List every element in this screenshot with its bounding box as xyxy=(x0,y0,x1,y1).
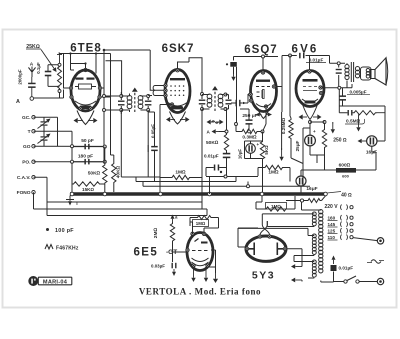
capacitor polarized xyxy=(206,165,227,195)
svg-text:0.01μF: 0.01μF xyxy=(204,154,219,159)
6SK7 top pin xyxy=(176,69,179,72)
svg-text:1MΩ: 1MΩ xyxy=(268,170,279,176)
6E5 pin TL xyxy=(191,232,194,235)
6SK7 grid bar xyxy=(170,78,185,80)
tap 125 xyxy=(328,228,354,234)
svg-text:0.01μF: 0.01μF xyxy=(309,58,324,63)
title text xyxy=(139,287,261,297)
wire Bplus 2 xyxy=(136,176,236,182)
arrows to 5Y3 xyxy=(291,260,302,282)
6TE8 pin right upper xyxy=(98,86,101,89)
electrolytic 16uF top xyxy=(366,136,385,156)
bus junction 2 xyxy=(103,192,107,196)
6SK7 grid dots xyxy=(170,85,184,96)
ground symbol T xyxy=(66,196,79,208)
6TE8 top pin xyxy=(84,68,87,71)
resistor 50K xyxy=(88,147,107,192)
electrolytic 16uF bus xyxy=(296,170,325,194)
resistor 40ohm xyxy=(286,192,352,211)
capacitor 50pF xyxy=(72,138,105,149)
6V6 cathode xyxy=(302,99,318,104)
resistor 2M xyxy=(153,222,187,252)
wire tone box xyxy=(339,89,385,141)
tube 6V6 envelope xyxy=(296,71,324,107)
terminal GO xyxy=(23,144,35,150)
6SQ7 heater vee xyxy=(258,110,269,119)
tube label 6SK7 xyxy=(162,43,195,55)
5Y3 left wire xyxy=(238,228,258,247)
svg-text:0.5MΩ: 0.5MΩ xyxy=(346,119,361,125)
pot 0.5M wiper xyxy=(356,115,360,132)
legend 100pF xyxy=(46,228,74,234)
tap 145 xyxy=(328,222,354,228)
terminal mains 1 xyxy=(377,238,383,244)
5Y3 pin top 1 xyxy=(258,235,261,238)
capacitor grid black xyxy=(226,62,237,124)
svg-text:180 pF: 180 pF xyxy=(78,154,93,160)
6E5 pin BL xyxy=(192,264,195,267)
capacitor tone xyxy=(339,106,352,116)
bus junction 4 xyxy=(208,192,212,196)
logo mark xyxy=(28,276,72,286)
wire 100pF to grid xyxy=(245,94,254,103)
terminal T xyxy=(28,129,36,135)
svg-text:A: A xyxy=(30,62,34,68)
svg-text:0.03μF: 0.03μF xyxy=(151,264,165,269)
capacitor 180pF xyxy=(72,154,105,165)
6V6 dashes xyxy=(303,87,317,91)
resistor 50K 6SQ7 xyxy=(224,133,228,152)
6SK7 pin bottom xyxy=(170,103,173,106)
wire cathode bus xyxy=(303,128,325,186)
svg-text:5Y3: 5Y3 xyxy=(252,270,275,282)
label 25K ohm xyxy=(26,44,57,72)
resistor 0.3M xyxy=(236,124,263,141)
6E5 arrows xyxy=(191,250,218,283)
svg-text:600: 600 xyxy=(342,174,349,179)
6SK7 heater arrows xyxy=(166,117,190,122)
6V6 top pin xyxy=(308,70,311,73)
tube label 6TE8 xyxy=(70,43,102,55)
wire 6V6 plate top xyxy=(306,56,346,64)
wire HV to filament xyxy=(262,214,308,227)
svg-text:GO: GO xyxy=(23,144,31,150)
6V6 pin right 2 xyxy=(319,91,322,94)
transformer left taps xyxy=(308,214,314,278)
6V6 grid bar xyxy=(303,79,318,82)
wire CAV xyxy=(34,177,203,215)
junction 6V6 grid xyxy=(289,54,310,70)
IF1 junction BR xyxy=(147,109,150,112)
label 6E5 xyxy=(134,247,178,259)
svg-text:1MΩ: 1MΩ xyxy=(175,170,186,176)
6TE8 internal grid bars xyxy=(76,78,95,80)
tube label 6SQ7 xyxy=(244,44,277,56)
svg-text:10μF: 10μF xyxy=(238,149,243,160)
label 5Y3 xyxy=(252,270,275,282)
svg-text:2000pF: 2000pF xyxy=(18,69,23,84)
resistor 1M 6E5 xyxy=(190,216,219,227)
capacitor 0.01uF coupling xyxy=(299,53,304,59)
wire 6SQ7 top xyxy=(234,57,279,71)
6TE8 right pin stubs xyxy=(101,88,110,97)
potentiometer 0.5M xyxy=(353,111,385,115)
capacitor 0.01 mains xyxy=(331,256,354,272)
svg-text:145: 145 xyxy=(328,222,336,227)
6TE8 heater arrows xyxy=(74,118,98,123)
terminal GC. xyxy=(22,115,35,121)
resistor 5K xyxy=(260,132,269,193)
electrolytic 25uF xyxy=(295,122,316,155)
6E5 pin TR xyxy=(202,232,205,235)
wire 6SK7 plate top xyxy=(178,58,203,94)
trimmer capacitor 1 xyxy=(34,117,58,131)
antenna symbol xyxy=(29,62,36,78)
6V6 heater vee xyxy=(303,105,318,120)
wire Bplus 3 xyxy=(143,178,310,187)
potentiometer 25K xyxy=(57,53,62,98)
tube 6SK7 envelope xyxy=(165,70,190,113)
IF1 tuning arrow xyxy=(132,88,138,113)
5Y3 filament wires xyxy=(260,221,270,235)
transformer top wire xyxy=(320,209,322,212)
6SQ7 pin right xyxy=(272,85,275,88)
wire 121 down xyxy=(120,163,122,177)
terminal C.A.V. xyxy=(17,175,35,181)
resistor 40K xyxy=(111,120,122,192)
bus junction end xyxy=(324,192,328,196)
wire 6SQ7 6V6 coupling xyxy=(282,56,297,113)
label 0.005uF xyxy=(347,90,370,95)
capacitor 0.005 plates xyxy=(339,95,346,100)
wire lower 1 xyxy=(202,202,207,216)
electrolytic 10uF xyxy=(238,141,263,159)
svg-text:6SK7: 6SK7 xyxy=(162,43,195,55)
wire 5Y3 net xyxy=(256,196,295,202)
6SK7 pin left 3 xyxy=(164,94,167,97)
tube label 6V6 xyxy=(291,44,318,56)
svg-text:1MΩ: 1MΩ xyxy=(196,221,206,226)
svg-text:0.3MΩ: 0.3MΩ xyxy=(242,135,257,141)
6SQ7 heater arrows xyxy=(256,113,273,117)
6SQ7 top pin xyxy=(261,71,264,74)
IF1 junction TL xyxy=(120,95,123,98)
svg-text:50 pF: 50 pF xyxy=(81,138,94,144)
arrow a ref xyxy=(171,215,179,223)
5Y3 pin left xyxy=(245,247,248,250)
IF1 cap left xyxy=(118,98,125,109)
IF2 tuning arrow xyxy=(212,86,218,111)
arrow 16uF left xyxy=(358,139,367,143)
svg-text:-GT: -GT xyxy=(166,249,177,256)
svg-text:MARI-04: MARI-04 xyxy=(43,279,68,285)
6E5 pin BR xyxy=(206,264,209,267)
label 0.5M xyxy=(345,119,365,125)
svg-text:250 Ω: 250 Ω xyxy=(333,138,347,144)
IF1 secondary coil xyxy=(138,96,148,111)
svg-text:0.1μF: 0.1μF xyxy=(36,62,41,74)
6TE8 cathode dark xyxy=(75,101,96,109)
svg-text:25μF: 25μF xyxy=(295,140,300,151)
label 50K 6SQ7 xyxy=(206,140,219,146)
svg-text:50KΩ: 50KΩ xyxy=(206,140,219,146)
resistor 1M IF xyxy=(160,145,202,194)
svg-text:40 Ω: 40 Ω xyxy=(341,193,352,199)
svg-text:GC.: GC. xyxy=(22,115,31,121)
transformer secondary winding bot xyxy=(312,260,316,277)
wire top bus 1 xyxy=(59,53,111,54)
IF2 junction BL xyxy=(201,108,204,111)
6SQ7 dashes xyxy=(256,86,270,88)
6V6 pin right 1 xyxy=(319,86,322,89)
tap selector wire xyxy=(353,238,377,241)
resistor 0.25M xyxy=(279,57,303,164)
ground arrow tone xyxy=(331,122,335,134)
wire Bplus 1 xyxy=(121,176,160,178)
6SQ7 grid bar xyxy=(256,80,270,82)
bus junction 5 xyxy=(260,192,264,196)
svg-text:2MΩ: 2MΩ xyxy=(153,228,159,239)
svg-text:50KΩ: 50KΩ xyxy=(88,171,101,177)
6V6 heater arrows xyxy=(299,114,322,119)
svg-text:VERTOLA . Mod. Eria fono: VERTOLA . Mod. Eria fono xyxy=(139,287,261,297)
svg-text:T: T xyxy=(28,129,31,135)
IF1 junction BL xyxy=(120,109,123,112)
svg-text:0.01μF: 0.01μF xyxy=(339,266,354,271)
output transformer core xyxy=(351,62,353,82)
wire transformer down xyxy=(343,81,348,106)
capacitor speaker 0.005 xyxy=(336,65,342,86)
resistor 1M bottom xyxy=(256,202,295,211)
capacitor 250uF xyxy=(240,109,258,130)
capacitor 2000pF xyxy=(18,69,36,96)
IF1 primary coil xyxy=(121,94,132,113)
tube 5Y3 envelope xyxy=(246,236,286,261)
transformer bottom wire xyxy=(321,272,334,283)
svg-text:FONO: FONO xyxy=(17,190,31,196)
svg-text:6V6: 6V6 xyxy=(291,44,318,56)
svg-text:+: + xyxy=(313,129,316,134)
terminal PO. xyxy=(22,160,35,166)
6SQ7 pin left 1 xyxy=(249,93,252,96)
wire 6TE8 left plate xyxy=(64,54,75,89)
IF2 secondary coil xyxy=(218,94,225,109)
capacitor 0.1uF xyxy=(36,62,60,86)
wire IF1 to B line xyxy=(103,95,122,112)
svg-text:F467KHz: F467KHz xyxy=(56,246,79,252)
IF1 left lead xyxy=(120,92,122,114)
6SK7 bottom wire xyxy=(160,105,170,146)
junction 6SQ7 top xyxy=(262,55,265,58)
6E5 dashes xyxy=(192,250,208,252)
6SQ7 diode plates xyxy=(257,90,265,99)
junction 250 xyxy=(309,121,327,124)
wire GO row xyxy=(34,145,105,147)
chassis bus xyxy=(70,192,326,195)
svg-text:250 μF: 250 μF xyxy=(242,113,257,119)
wire A row xyxy=(34,90,64,99)
6SQ7 pin bottom xyxy=(263,87,283,132)
6TE8 internal box xyxy=(75,84,96,89)
5Y3 pin right xyxy=(283,247,286,250)
svg-text:0.005μF: 0.005μF xyxy=(349,90,366,95)
output transformer secondary xyxy=(355,67,359,78)
6SK7 pin left 1 xyxy=(164,84,167,87)
legend IF freq xyxy=(45,245,79,252)
6TE8 pin right lower xyxy=(98,95,101,98)
terminal FONO xyxy=(17,190,36,196)
tube 6SQ7 envelope xyxy=(251,71,277,112)
IF2 junction BR xyxy=(224,108,227,111)
trimmer capacitor 2 xyxy=(34,131,73,146)
IF2 drops xyxy=(202,95,229,203)
IF1 vertical drops xyxy=(121,110,148,177)
bus junction 1 xyxy=(70,192,74,196)
tube 6E5 envelope xyxy=(187,233,213,271)
6E5 top marks xyxy=(195,239,208,244)
svg-text:5KΩ: 5KΩ xyxy=(264,145,269,155)
arrow A ref xyxy=(207,129,226,134)
wire PO row xyxy=(34,161,105,163)
wire grid cap feed xyxy=(69,52,97,73)
label 220V xyxy=(325,204,354,210)
IF2 junction TL xyxy=(201,93,204,96)
capacitor 0.01uF 6SQ7 xyxy=(204,152,258,177)
capacitor 0.03uF xyxy=(151,252,176,276)
svg-text:6E5: 6E5 xyxy=(134,247,159,259)
IF2 primary coil xyxy=(202,94,212,109)
6TE8 heater vee xyxy=(77,111,94,125)
label 0.01uF coupling xyxy=(306,58,326,63)
svg-text:100 pF: 100 pF xyxy=(55,228,74,234)
wire vert 72 xyxy=(58,117,107,184)
svg-text:T: T xyxy=(76,201,79,207)
svg-text:220 V: 220 V xyxy=(325,204,339,210)
6SQ7 pin left 2 xyxy=(249,99,252,102)
6SK7 pin left 2 xyxy=(164,89,167,92)
speaker xyxy=(371,58,388,85)
bus junction 3 xyxy=(159,192,163,196)
capacitor 0.05uF xyxy=(148,112,158,160)
svg-text:110: 110 xyxy=(328,235,336,240)
svg-text:600Ω: 600Ω xyxy=(339,163,351,169)
svg-text:A: A xyxy=(16,99,20,105)
svg-text:+: + xyxy=(257,142,260,147)
wire grid coil xyxy=(106,61,122,96)
svg-text:160: 160 xyxy=(328,216,336,221)
wire heater bottom xyxy=(294,256,308,262)
svg-text:PO.: PO. xyxy=(22,160,30,166)
transformer secondary winding top xyxy=(312,212,316,226)
svg-text:16μF: 16μF xyxy=(306,186,317,192)
resistor 1M mid xyxy=(258,165,290,181)
6TE8 pin left upper xyxy=(69,86,72,89)
svg-text:15KΩ: 15KΩ xyxy=(82,187,94,192)
6E5 top wires xyxy=(190,222,219,234)
wire IF1 right down xyxy=(148,112,154,182)
6SK7 grid wires xyxy=(148,86,164,96)
junction speaker cap xyxy=(337,62,340,65)
capacitor 100pF grid xyxy=(231,100,245,107)
tap 110 xyxy=(328,235,354,241)
wire 5Y3 left loop xyxy=(238,228,308,235)
IF1 junction TR xyxy=(147,95,150,98)
svg-text:6TE8: 6TE8 xyxy=(70,43,102,55)
6E5 arcs xyxy=(192,258,209,266)
svg-text:40KΩ: 40KΩ xyxy=(116,165,122,178)
6SK7 cathode dark xyxy=(168,103,187,110)
5Y3 pin top 2 xyxy=(268,235,271,238)
6SQ7 cathode xyxy=(256,104,271,107)
5Y3 right wire xyxy=(287,249,302,260)
6TE8 pin bottom right xyxy=(89,107,92,110)
transformer primary winding xyxy=(319,210,323,282)
label 15K pointer xyxy=(104,191,106,193)
svg-text:125: 125 xyxy=(328,229,336,234)
voice coil loop xyxy=(361,67,372,80)
5Y3 plate right xyxy=(277,243,283,256)
transformer secondary winding mid xyxy=(312,234,316,255)
terminal A antenna xyxy=(16,97,34,105)
junction 6V6 plate xyxy=(323,84,353,89)
junction top 6TE8 xyxy=(103,49,106,60)
svg-text:6SQ7: 6SQ7 xyxy=(244,44,277,56)
wire top bus 2 xyxy=(104,50,159,90)
6TE8 pin bottom left xyxy=(79,107,82,110)
junction 03M xyxy=(224,123,264,188)
switch wave symbol xyxy=(207,120,224,125)
resistor 15K xyxy=(72,182,105,192)
IF2 junction TR xyxy=(224,93,227,96)
IF1 cap right xyxy=(145,98,152,109)
choke 600ohm xyxy=(325,147,377,179)
terminal mains 2 xyxy=(377,278,383,284)
output transformer primary xyxy=(345,63,349,83)
6E5 pin left xyxy=(186,248,189,251)
resistor 250ohm xyxy=(322,120,347,157)
IF2 cap right xyxy=(226,95,232,110)
svg-text:C.A.V.: C.A.V. xyxy=(17,175,31,181)
IF2 cap left xyxy=(199,96,206,108)
5Y3 plate left xyxy=(249,243,254,256)
6SK7 heater vee xyxy=(170,112,186,125)
6TE8 pin left lower xyxy=(70,95,73,98)
wave symbol ac xyxy=(367,260,384,264)
tap 160 xyxy=(328,215,354,221)
tube 6TE8 envelope xyxy=(71,70,100,111)
svg-text:1MΩ: 1MΩ xyxy=(271,204,281,209)
switch xyxy=(334,276,378,283)
wire screen drop xyxy=(104,52,111,163)
wire FONO xyxy=(34,192,208,215)
